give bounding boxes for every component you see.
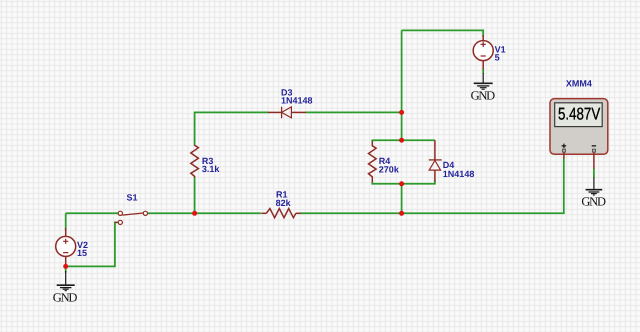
wire V2 bottom to switch throw: [66, 222, 117, 266]
voltage source V2: [56, 228, 76, 266]
node box top junction: [399, 138, 404, 143]
node box bottom junction: [399, 181, 404, 186]
resistor R4: [369, 142, 377, 183]
wire R3 column top: [194, 112, 196, 146]
wire R3 column bottom: [194, 177, 196, 213]
diode D3: [268, 107, 306, 119]
label R1 82k: [276, 189, 292, 208]
wire meter gnd stub: [593, 168, 595, 178]
voltage source V1: [473, 35, 493, 70]
label R4 270k: [379, 156, 400, 175]
label D4 1N4148: [443, 160, 475, 179]
label S1: [127, 193, 138, 203]
node bottom wire junction: [399, 211, 404, 216]
svg-text:82k: 82k: [276, 198, 292, 208]
label D3 1N4148: [281, 88, 313, 106]
ground below V2: [53, 271, 78, 304]
node D3-right junction: [399, 110, 404, 115]
svg-text:3.1k: 3.1k: [202, 164, 221, 174]
switch S1: [115, 211, 148, 224]
ground below V1: [471, 73, 496, 103]
wire box bottom R4 D4: [372, 183, 435, 185]
svg-text:5.487V: 5.487V: [558, 105, 601, 124]
svg-text:S1: S1: [127, 193, 138, 203]
resistor R3: [191, 145, 199, 178]
svg-text:15: 15: [77, 248, 87, 258]
wire box top R4 D4: [372, 139, 435, 141]
wire D3 row right: [305, 111, 401, 113]
label XMM4: [566, 79, 592, 89]
diode D4: [429, 140, 442, 181]
wire D3 row left: [195, 111, 269, 113]
svg-text:GND: GND: [471, 89, 496, 103]
node V2 bottom junction: [63, 264, 68, 269]
svg-text:1N4148: 1N4148: [443, 169, 475, 179]
wire switch to R1: [147, 212, 261, 214]
svg-text:GND: GND: [581, 195, 606, 209]
label V1 value 5: [495, 44, 506, 62]
wire bottom left segment V2 to switch: [66, 212, 119, 214]
resistor R1: [261, 209, 300, 218]
svg-text:GND: GND: [53, 290, 78, 304]
wire left main vertical: [401, 30, 403, 140]
wire D4 bottom stub: [434, 181, 436, 185]
wire R1 to meter riser: [300, 158, 564, 214]
svg-text:5: 5: [495, 53, 500, 63]
svg-text:1N4148: 1N4148: [281, 95, 313, 105]
svg-text:270k: 270k: [379, 165, 400, 175]
wire top from node A to V1: [402, 30, 484, 36]
svg-text:XMM4: XMM4: [566, 79, 592, 89]
wire V2 gnd stub: [65, 266, 67, 272]
wire R4 stubs: [371, 140, 373, 185]
label R3 3.1k: [202, 156, 221, 174]
multimeter XMM4: [550, 99, 608, 169]
wire V2 top to corner: [65, 213, 67, 230]
label V2 value 15: [77, 240, 88, 258]
wire center vertical below box: [401, 184, 403, 214]
node R3 bottom junction: [192, 211, 197, 216]
wire V1 gnd stub: [482, 69, 484, 74]
ground below XMM4: [581, 177, 606, 208]
